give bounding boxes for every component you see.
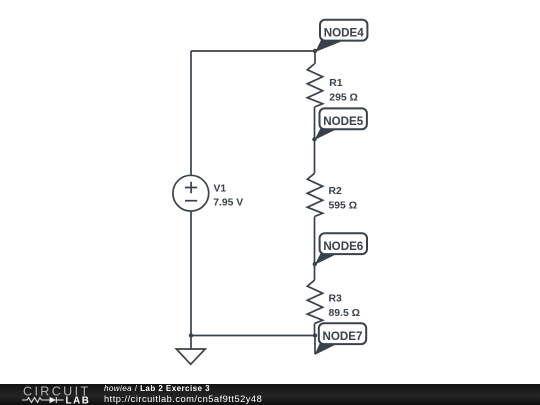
wire stub to NODE7 anchor — [314, 336, 316, 355]
svg-text:NODE6: NODE6 — [323, 240, 363, 253]
node NODE7 flag — [315, 323, 367, 355]
footer line 2: url — [104, 394, 262, 405]
svg-text:NODE5: NODE5 — [323, 115, 363, 128]
wire bottom horizontal — [191, 335, 315, 337]
svg-text:R2: R2 — [329, 186, 343, 197]
wire right segment NODE4 to R1 — [314, 51, 316, 64]
svg-text:V1: V1 — [214, 184, 227, 195]
wire left vertical upper — [190, 51, 192, 175]
wire top horizontal from V1 to NODE4 — [191, 50, 315, 52]
svg-text:89.5 Ω: 89.5 Ω — [329, 308, 360, 319]
node NODE6 flag — [313, 233, 367, 266]
footer line 1: title — [104, 384, 210, 394]
wire left vertical lower — [190, 211, 192, 335]
resistor R3 — [307, 280, 322, 323]
svg-text:NODE7: NODE7 — [323, 330, 363, 343]
footer bar — [0, 384, 540, 405]
node NODE4 flag — [313, 20, 368, 53]
svg-text:R3: R3 — [329, 294, 343, 305]
svg-text:R1: R1 — [329, 78, 343, 89]
junction dot left bottom — [189, 333, 193, 337]
node NODE5 flag — [312, 108, 367, 141]
wire right segment R2 to R3 — [314, 217, 316, 281]
resistor R1 — [307, 64, 322, 107]
svg-text:295 Ω: 295 Ω — [329, 92, 358, 103]
CircuitLab logo — [22, 385, 97, 405]
resistor R2 — [307, 173, 322, 216]
svg-text:LAB: LAB — [65, 395, 90, 404]
svg-text:595 Ω: 595 Ω — [329, 200, 358, 211]
wire right segment R3 to bottom — [314, 323, 316, 335]
ground — [176, 336, 205, 365]
logo resistor-diode glyph — [22, 396, 64, 402]
wire right segment R1 to R2 — [314, 107, 316, 173]
svg-text:7.95 V: 7.95 V — [213, 198, 243, 209]
voltage source V1 — [173, 175, 209, 211]
junction dot right bottom — [313, 333, 317, 337]
svg-text:NODE4: NODE4 — [324, 26, 364, 39]
